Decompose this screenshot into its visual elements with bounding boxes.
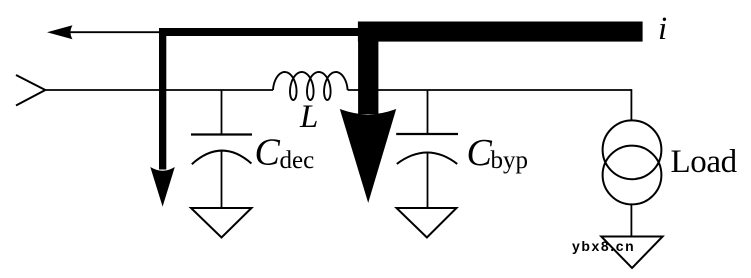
svg-text:ybx8.cn: ybx8.cn [572, 238, 635, 254]
svg-text:dec: dec [280, 147, 315, 174]
svg-text:Load: Load [671, 144, 738, 180]
svg-text:byp: byp [491, 147, 529, 174]
svg-text:i: i [658, 11, 667, 47]
svg-text:C: C [467, 132, 493, 174]
svg-text:C: C [255, 132, 281, 174]
svg-text:L: L [299, 99, 318, 135]
